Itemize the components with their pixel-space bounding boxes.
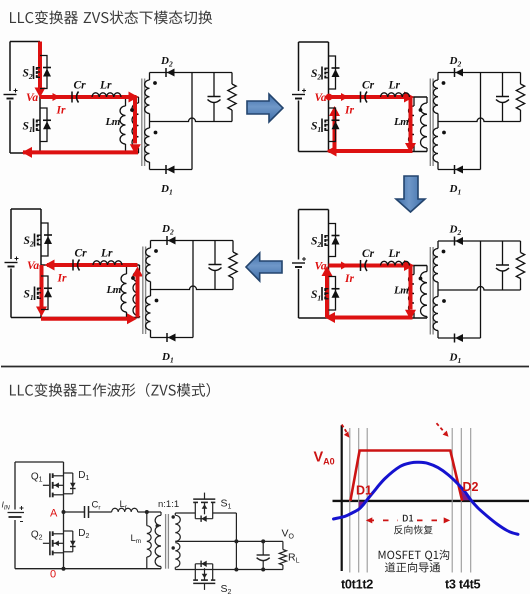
transformer T primary winding: [426, 266, 428, 272]
switch S1 body-diode branch: [329, 108, 336, 142]
inductor Lm: [126, 265, 128, 274]
svg-text:Va: Va: [27, 260, 39, 272]
annotation text MOSFET Q1 channel forward conduction: [379, 550, 450, 561]
sync rectifier S2 MOSFET: [204, 583, 206, 590]
wire Lr to primary: [138, 511, 161, 513]
svg-text:Lm: Lm: [105, 116, 121, 128]
wire secondary bottom: [151, 337, 194, 339]
transformer secondary winding lower: [175, 543, 180, 568]
wire top rail: [10, 41, 40, 43]
diode of S1: [332, 290, 340, 298]
wire top rail: [11, 208, 41, 210]
circuit state 4: wire left rail: [298, 210, 300, 260]
switch S1 MOSFET: [34, 287, 36, 301]
current path Ir (state 1): [38, 42, 42, 91]
wire secondary bottom: [438, 169, 481, 171]
circuit state 3: wire left rail: [10, 209, 12, 259]
switch S2 MOSFET: [321, 67, 323, 80]
inductor Lr: [92, 93, 121, 97]
circuit state 2: wire left rail: [298, 42, 300, 91]
wire bottom rail: [299, 317, 428, 319]
grid line t2: [366, 428, 368, 573]
region D2 (right purple wedge): [459, 487, 472, 501]
svg-text:Va: Va: [26, 92, 38, 104]
svg-text:Ir: Ir: [344, 105, 354, 117]
switch S1 MOSFET: [321, 119, 323, 133]
wire secondary top to S1: [175, 512, 195, 514]
wire node Va to resonant tank: [41, 264, 140, 266]
switch S1 body-diode branch: [329, 277, 336, 311]
transformer secondary winding upper: [150, 241, 152, 249]
polarity dot primary: [156, 524, 159, 527]
svg-text:Va: Va: [315, 261, 327, 273]
svg-text:Cr: Cr: [362, 80, 375, 92]
switch S2 MOSFET: [321, 234, 323, 247]
wire center tap to output: [175, 540, 283, 542]
annotation arrow rising edge: [342, 425, 348, 434]
polarity dot primary: [131, 276, 135, 280]
wire bottom rail: [11, 317, 140, 319]
transformer secondary winding lower: [149, 122, 151, 129]
svg-text:Cr: Cr: [74, 80, 87, 92]
svg-text:Ir: Ir: [57, 273, 67, 285]
svg-text:Ir: Ir: [344, 273, 354, 285]
wire switch leg: [328, 42, 330, 152]
diode of S2: [44, 236, 52, 244]
svg-text:Lm: Lm: [393, 116, 409, 128]
body diode D1 of Q1: [64, 472, 73, 474]
inductor Lr: [381, 261, 410, 265]
switch S2 body-diode branch: [41, 223, 48, 256]
wire secondary bottom: [150, 169, 193, 171]
current path Ir (state 4): [329, 264, 410, 268]
load resistor: [232, 241, 234, 253]
diode of S1: [44, 289, 52, 297]
input source IIN battery: [14, 462, 16, 510]
polarity dot secondary lower: [154, 131, 158, 135]
wire secondary center tap with hop: [438, 287, 521, 291]
polarity dot secondary upper: [154, 249, 158, 253]
switch S2 body-diode branch: [329, 56, 336, 89]
sync rectifier S1 MOSFET: [204, 493, 206, 500]
transformer secondary winding upper: [149, 73, 151, 81]
section divider: [1, 366, 529, 368]
switch Q1 MOSFET: [43, 484, 49, 486]
inductor Lr: [112, 508, 138, 512]
diode D2: [455, 69, 463, 77]
polarity dot secondary lower: [155, 299, 159, 303]
wire rectifier return: [480, 241, 482, 338]
svg-text:Lr: Lr: [99, 80, 112, 92]
svg-text:Lr: Lr: [100, 248, 113, 260]
svg-text:n:1:1: n:1:1: [158, 499, 179, 510]
node A: [62, 510, 66, 514]
waveform VA0 trapezoid: [350, 451, 462, 501]
transformer core: [165, 514, 167, 569]
region D1 reverse recovery (left purple wedge): [359, 502, 366, 511]
current path Ir (state 2): [326, 94, 333, 101]
wire top rail: [15, 461, 64, 463]
output capacitor: [261, 539, 265, 543]
transformer secondary winding lower: [437, 122, 439, 129]
load resistor RL: [282, 541, 284, 549]
polarity dot primary: [419, 277, 423, 281]
grid line t5: [470, 428, 472, 573]
svg-text:t3 t4t5: t3 t4t5: [445, 578, 481, 592]
wire node Va to resonant tank: [329, 96, 428, 98]
current path Ir (state 3): [47, 263, 138, 267]
waveform x-axis: [333, 500, 530, 502]
svg-text:Cr: Cr: [362, 248, 375, 260]
polarity dot secondary upper: [172, 515, 175, 518]
diode of S2: [332, 69, 340, 77]
wire secondary top rail: [151, 240, 234, 242]
capacitor Cr: [72, 260, 74, 271]
polarity dot primary: [130, 108, 134, 112]
inductor Lm: [413, 97, 415, 106]
transformer secondary winding upper: [437, 241, 439, 249]
output capacitor: [214, 241, 216, 265]
output capacitor: [502, 73, 504, 97]
transformer secondary winding lower: [150, 290, 152, 297]
diode of S2: [43, 69, 51, 77]
transformer T primary winding: [138, 97, 140, 103]
switch S1 MOSFET: [33, 119, 35, 133]
DC source battery: [4, 94, 17, 96]
DC source battery: [5, 262, 18, 264]
capacitor Cr: [360, 92, 362, 103]
diode D1: [455, 166, 463, 174]
capacitor Cr: [71, 92, 73, 103]
switch S2 MOSFET: [33, 66, 35, 79]
transition arrow state2 to state4: [396, 176, 425, 212]
body diode D2 of Q2: [64, 530, 73, 532]
polarity dot secondary lower: [442, 131, 446, 135]
polarity dot secondary upper: [153, 81, 157, 85]
diode D2: [167, 69, 175, 77]
switch S2 body-diode branch: [40, 56, 47, 89]
wire node A to Cr: [64, 511, 85, 513]
DC source battery: [292, 94, 305, 96]
svg-text:t0t1t2: t0t1t2: [341, 578, 373, 592]
svg-text:Lr: Lr: [388, 80, 401, 92]
diode of S1: [43, 121, 51, 129]
waveform resonant current sinusoid: [334, 462, 519, 534]
title: LLC converter ZVS mode transition: [10, 10, 212, 24]
polarity dot secondary upper: [442, 250, 446, 254]
output capacitor: [213, 73, 215, 97]
transformer secondary winding upper: [174, 513, 176, 515]
svg-text:Lm: Lm: [106, 284, 122, 296]
transformer T primary winding: [139, 265, 141, 271]
wire secondary center tap with hop: [151, 286, 234, 290]
svg-text:Lr: Lr: [388, 248, 401, 260]
capacitor Cr: [84, 506, 86, 518]
grid line t3: [451, 428, 453, 573]
polarity dot primary: [419, 108, 423, 112]
wire half-bridge leg: [63, 462, 65, 569]
grid line t1: [358, 428, 360, 573]
diode D1: [168, 334, 176, 342]
wire rectifier return: [191, 73, 193, 170]
wire secondary center tap with hop: [438, 118, 521, 122]
DC source battery: [292, 262, 305, 264]
svg-text:Lm: Lm: [393, 285, 409, 297]
wire Cr to Lr: [89, 511, 112, 513]
wire rectifier return: [192, 241, 194, 338]
inductor Lm: [125, 97, 127, 106]
body diode of S2: [194, 564, 196, 570]
inductor Lm: [413, 266, 415, 275]
transformer T core: [141, 79, 143, 167]
transformer secondary winding lower: [437, 290, 439, 297]
svg-text:D1: D1: [356, 484, 372, 498]
wire top rail: [299, 209, 329, 211]
wire bottom rail: [10, 152, 139, 154]
wire rectifier return: [480, 73, 482, 170]
annotation text D1 reverse recovery: [403, 515, 413, 522]
title: LLC converter operating waveform (ZVS mode): [10, 383, 210, 397]
wire bottom rail: [299, 151, 428, 153]
wire node Va to resonant tank: [329, 265, 428, 267]
diode of S2: [332, 237, 340, 245]
diode D2: [168, 237, 176, 245]
diode of S1: [332, 121, 340, 129]
wire output return vertical: [235, 513, 237, 570]
capacitor Cr: [360, 260, 362, 271]
wire switch leg: [328, 210, 330, 319]
wire S1 to output return: [213, 512, 237, 514]
wire node Va to resonant tank: [40, 96, 139, 98]
diode D1: [167, 166, 175, 174]
wire secondary top rail: [438, 72, 521, 74]
wire secondary top rail: [438, 240, 521, 242]
svg-text:Cr: Cr: [75, 248, 88, 260]
wire switch leg: [40, 209, 42, 318]
transformer T core: [429, 247, 431, 335]
annotation arrow falling edge: [437, 423, 445, 432]
wire secondary bottom: [438, 337, 481, 339]
wire secondary center tap with hop: [150, 118, 233, 122]
wire switch leg: [39, 42, 41, 154]
svg-text:Ir: Ir: [56, 105, 66, 117]
svg-text:0: 0: [50, 569, 56, 581]
inductor Lm: [146, 512, 148, 526]
waveform y-axis: [341, 425, 343, 571]
transformer primary winding: [160, 512, 162, 515]
transition arrow state1 to state2: [247, 94, 283, 122]
switch S1 MOSFET: [321, 287, 323, 301]
inductor Lr: [93, 261, 122, 265]
transformer T core: [429, 79, 431, 167]
grid line t0: [349, 428, 351, 573]
transformer T primary winding: [426, 97, 428, 103]
load resistor: [231, 73, 233, 85]
switch S1 body-diode branch: [40, 108, 47, 142]
dimension arrow D1 reverse recovery span: [369, 519, 399, 521]
switch Q2 MOSFET: [43, 542, 49, 544]
wire bottom rail: [15, 568, 161, 570]
node 0: [62, 567, 66, 571]
node Lm tap: [145, 510, 149, 514]
output capacitor: [502, 241, 504, 265]
svg-text:Va: Va: [315, 92, 327, 104]
transformer secondary winding upper: [437, 73, 439, 81]
polarity dot secondary upper: [442, 81, 446, 85]
wire secondary bottom rail: [175, 569, 283, 571]
polarity dot secondary lower: [172, 546, 175, 549]
load resistor: [520, 241, 522, 253]
svg-text:D2: D2: [463, 480, 479, 494]
svg-text:A: A: [50, 508, 58, 520]
wire top rail: [299, 41, 329, 43]
load resistor: [520, 73, 522, 85]
body diode of S1: [194, 513, 196, 519]
switch S2 body-diode branch: [329, 224, 336, 257]
node output return / center rail: [234, 539, 238, 543]
transition arrow state4 to state3: [246, 253, 282, 281]
polarity dot secondary lower: [442, 299, 446, 303]
transformer T core: [142, 247, 144, 335]
inductor Lr: [381, 93, 410, 97]
switch S2 MOSFET: [34, 234, 36, 247]
diode D2: [455, 237, 463, 245]
grid line t4: [460, 428, 462, 573]
switch S1 body-diode branch: [41, 276, 48, 310]
diode D1: [455, 334, 463, 342]
wire secondary top rail: [150, 72, 233, 74]
circuit state 1: wire left rail: [9, 42, 11, 92]
